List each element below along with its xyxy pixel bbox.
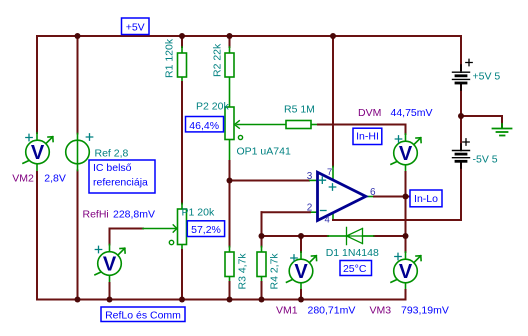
label box In-Lo (410, 190, 442, 207)
op-amp OP1 uA741 (318, 172, 366, 220)
wire R5 to In-HI node (311, 124, 318, 126)
value box 57,2% (187, 221, 224, 237)
svg-text:RefLo és Comm: RefLo és Comm (105, 310, 181, 322)
svg-text:228,8mV: 228,8mV (113, 209, 155, 221)
wire op-amp pin 4 supply (332, 213, 334, 220)
wire VM2 column upper (36, 36, 38, 133)
wire op-amp output pin 6 (366, 196, 374, 198)
resistor R5 (286, 121, 311, 129)
svg-text:VM2: VM2 (12, 173, 34, 185)
wire battery column (460, 36, 462, 70)
svg-text:25°C: 25°C (343, 263, 367, 275)
resistor R2 (225, 53, 234, 77)
svg-text:VM3: VM3 (370, 305, 392, 317)
resistor R4 (257, 252, 266, 277)
ground (493, 124, 512, 136)
wire node to op-amp pin 3 (230, 180, 310, 182)
wire diode net horizontal (262, 235, 329, 237)
node dot VM1 top (298, 233, 304, 239)
svg-text:57,2%: 57,2% (191, 224, 221, 236)
node dot bottom rail R4 (259, 297, 265, 303)
svg-text:280,71mV: 280,71mV (308, 305, 356, 317)
node dot top rail R2 (227, 33, 233, 39)
resistor R1 (178, 53, 187, 77)
node dot top rail pin7 (330, 33, 336, 39)
node dot bottom rail P1 (179, 297, 185, 303)
node dot top rail Ref (75, 33, 81, 39)
svg-text:V: V (399, 143, 413, 165)
svg-text:+5V: +5V (126, 22, 145, 34)
op-amp plus marks (319, 177, 325, 183)
voltmeter VM2 (23, 137, 53, 164)
svg-text:3: 3 (307, 171, 313, 182)
wire In-Lo node down to diode node (405, 197, 407, 237)
node dot battery mid (458, 113, 464, 119)
resistor R3 (225, 252, 234, 277)
wire VM3 leads (405, 236, 407, 252)
svg-text:OP1 uA741: OP1 uA741 (237, 146, 291, 158)
wire op-amp pin 2 net (310, 211, 317, 213)
node dot top rail R1 (179, 33, 185, 39)
annotation box IC belső referenciája (89, 160, 155, 193)
svg-text:V: V (399, 261, 413, 283)
svg-text:2: 2 (307, 202, 313, 213)
svg-text:R3 4,7k: R3 4,7k (237, 253, 249, 290)
wire R1 top lead (181, 36, 183, 47)
node dot bottom rail RefHi (107, 297, 113, 303)
potentiometer P1 (178, 209, 187, 245)
node dot output In-Lo (403, 194, 409, 200)
wire RefHi wiper net (110, 228, 144, 230)
svg-text:In-HI: In-HI (356, 130, 379, 142)
svg-text:In-Lo: In-Lo (414, 193, 438, 205)
svg-text:V: V (103, 254, 117, 276)
svg-text:V: V (31, 142, 45, 164)
wire op-amp pin 7 supply (332, 36, 334, 167)
svg-text:-5V 5: -5V 5 (473, 154, 498, 166)
node dot diode right (403, 233, 409, 239)
svg-text:D1 1N4148: D1 1N4148 (326, 247, 379, 259)
node dot bottom rail Ref (75, 297, 81, 303)
svg-text:R4 2,7k: R4 2,7k (269, 253, 281, 290)
wire VM2 column lower (36, 164, 38, 172)
svg-text:P2 20k: P2 20k (196, 101, 229, 113)
op-amp minus mark (321, 210, 327, 212)
wire Ref source column (77, 36, 79, 134)
wire R2 top lead (229, 36, 231, 47)
wire ground branch (461, 116, 502, 128)
node dot R4 top (259, 233, 265, 239)
svg-text:44,75mV: 44,75mV (391, 107, 433, 119)
svg-text:2,8V: 2,8V (44, 173, 66, 185)
wire P1 bottom to rail (181, 245, 183, 251)
wire top +5V rail (37, 35, 461, 37)
voltmeter DVM (391, 138, 421, 165)
wire bottom RefLo rail (37, 299, 406, 301)
value box 25°C (340, 261, 372, 276)
svg-text:+5V 5: +5V 5 (473, 71, 501, 83)
battery -5V 5 (453, 144, 470, 168)
value box 46,4% (186, 117, 224, 132)
svg-text:IC belső: IC belső (93, 162, 132, 174)
annotation box RefLo és Comm (101, 307, 185, 322)
svg-text:V: V (294, 261, 308, 283)
svg-text:6: 6 (370, 187, 376, 198)
svg-text:referenciája: referenciája (93, 177, 148, 189)
voltmeter VM3 (391, 256, 421, 283)
label box +5V (122, 18, 150, 35)
wire DVM bottom to In-Lo node (405, 165, 407, 172)
source Ref 2,8 (66, 140, 90, 164)
svg-text:4: 4 (325, 215, 330, 226)
wire R4 top and bottom leads (261, 236, 263, 247)
wire R1 to P1 (181, 77, 183, 83)
svg-text:R5 1M: R5 1M (284, 104, 315, 116)
node dot bottom rail VM1 (298, 297, 304, 303)
svg-text:DVM: DVM (358, 107, 381, 119)
svg-text:VM1: VM1 (276, 305, 298, 317)
voltmeter RefHi (95, 248, 125, 275)
voltmeter VM1 (287, 256, 317, 283)
wire VM1 leads (300, 236, 302, 252)
node dot bottom rail R3 (227, 297, 233, 303)
wire node down to R3 (229, 181, 231, 247)
battery +5V 5 (453, 65, 470, 90)
svg-text:7: 7 (327, 167, 332, 178)
wire P2 bottom to node (229, 140, 231, 162)
svg-text:R2 22k: R2 22k (212, 43, 224, 77)
wire P2 wiper to R5 (237, 124, 286, 126)
svg-text:R1 120k: R1 120k (164, 38, 176, 78)
diode D1 1N4148 (328, 227, 374, 244)
node dot pin3 net (227, 178, 233, 184)
wire R3 bottom to rail (229, 277, 231, 283)
svg-text:46,4%: 46,4% (189, 120, 219, 132)
wire RefHi voltmeter bottom (109, 275, 111, 283)
svg-text:P1 20k: P1 20k (182, 207, 215, 219)
svg-text:RefHi: RefHi (83, 209, 109, 221)
potentiometer P2 (225, 107, 234, 140)
svg-text:Ref 2,8: Ref 2,8 (95, 148, 129, 160)
label box In-HI (353, 128, 382, 144)
svg-text:793,19mV: 793,19mV (401, 305, 449, 317)
wire R2 to P2 (229, 77, 231, 108)
